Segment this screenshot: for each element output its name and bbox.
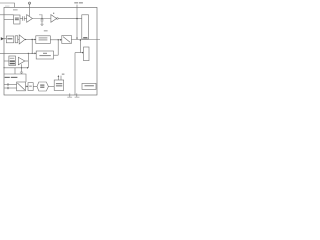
wire to amp2 (18, 38, 19, 40)
capacitor C2 plates (41, 18, 44, 20)
wire hex to B12 (48, 86, 54, 88)
junction J1 (76, 18, 77, 19)
trimmer stub (41, 14, 43, 19)
block B13 reference (82, 83, 96, 89)
block B12 (54, 80, 64, 90)
label above B6 (44, 30, 48, 31)
arrowheads (27, 38, 84, 69)
pin tick x70 (69, 93, 71, 96)
arrowhead A5 into B9 (35, 52, 37, 54)
inverter U2 (51, 15, 57, 23)
wire B9 out (54, 54, 59, 56)
arrowhead A3 up at x80.4 (80, 39, 82, 41)
wire input y53.3 (0, 52, 36, 54)
text inside hexagon (40, 85, 44, 86)
osc wire 1 (4, 84, 17, 86)
wire input y19.3 (4, 18, 14, 20)
wire cap to amp (24, 18, 27, 20)
stubs above B12 (57, 76, 59, 80)
wire W2b (50, 39, 62, 41)
arrowhead A9 into B11 (27, 86, 29, 88)
hexagon OSC (37, 82, 48, 91)
wire dac out arrow (26, 85, 28, 87)
wire y52.6 horizontal (75, 52, 83, 54)
label right of stubs (62, 74, 65, 75)
text inside B8 (10, 58, 15, 59)
osc wire 2 (4, 87, 17, 89)
text inside B13 (85, 85, 94, 86)
junction J9 (41, 18, 42, 19)
block B4 (6, 36, 14, 43)
block B7 ramp (62, 36, 72, 44)
pin label below border 2 (75, 97, 80, 98)
junction J2 (32, 39, 33, 40)
ground G2 under amp (21, 64, 23, 72)
wire pin x77 vertical (76, 5, 78, 40)
wire input y14.8 (0, 14, 14, 16)
text inside B6 (39, 37, 48, 38)
text inside B4 (7, 38, 12, 39)
wire top external (0, 3, 15, 7)
junction J8 (3, 67, 4, 68)
block B8 (9, 56, 16, 66)
wire into B8 (4, 60, 9, 62)
block B11 small (28, 83, 33, 91)
crystal bars (7, 83, 8, 89)
junction J3 (25, 39, 26, 40)
arrowhead A7 into B7 (60, 39, 62, 41)
input arrow A1 (1, 37, 4, 40)
op-amp U1 (27, 15, 33, 23)
wire y67.8 (4, 67, 28, 69)
wire amp3 riser (27, 53, 29, 68)
label top right (74, 2, 78, 3)
inverter bubble U2 (57, 18, 59, 20)
ground G2 bars (20, 71, 23, 73)
junction x58 drop (57, 40, 59, 55)
capacitor C1 plate 2 (23, 16, 25, 21)
text inside B1 (15, 18, 19, 19)
junction J6 (32, 53, 33, 54)
pin label below border 1 (67, 97, 72, 98)
label near C2 (39, 14, 42, 15)
label above block B1 (13, 9, 18, 10)
tick above U2 (53, 13, 54, 14)
wire x75 vertical (74, 53, 76, 95)
op-amp U3 (19, 35, 25, 44)
text inside B12 (56, 83, 62, 84)
converter diagonal in B10 (17, 83, 24, 90)
block B3 right mid (84, 47, 90, 61)
block B6 pwm (36, 36, 51, 44)
wire box to cap (20, 18, 23, 20)
wire y74 (4, 74, 26, 82)
block B5 narrow (15, 36, 18, 43)
text inside B9 (43, 53, 47, 54)
wire W2 output right (71, 39, 100, 41)
ground G1 (41, 23, 44, 25)
text smudges (5, 2, 94, 98)
arrowhead A2 down at x77 (76, 38, 78, 40)
arrowhead A10 on B12 stub (58, 75, 60, 77)
wire to hexagon (33, 85, 37, 87)
block B2 tall right (82, 15, 89, 39)
arrowhead A8 into B6 (34, 39, 36, 41)
wire pin to amp U1 (29, 4, 31, 16)
wire apex to riser (25, 60, 29, 62)
chip border (4, 7, 97, 95)
pin circle P1 (28, 2, 30, 4)
wire W1 (32, 18, 51, 20)
block B9 (36, 51, 53, 59)
faint label top-left (5, 6, 10, 7)
block B1 input (14, 15, 20, 24)
capacitor C1 (22, 16, 24, 21)
junction dots (3, 18, 77, 69)
junction J4 (58, 39, 59, 40)
wire W1b (58, 18, 82, 20)
wire x80.4 vertical (79, 40, 81, 53)
op-amp U4 (18, 57, 25, 65)
pin tick x77 (76, 93, 78, 96)
osc label (5, 77, 10, 78)
junction J7 (21, 67, 22, 68)
ramp diagonal in B7 (63, 37, 70, 43)
text inside B2 tall (83, 37, 87, 38)
mark inside B11 (29, 86, 32, 87)
junction x32 drop (31, 40, 33, 54)
wire W2a (25, 39, 36, 41)
arrowhead A6 on y67.8 wire (27, 67, 29, 69)
block B10 dac (17, 82, 26, 91)
wire arrow to block (4, 38, 7, 40)
link x15 (14, 68, 16, 74)
arrowhead A4 into B3 (82, 52, 84, 54)
junction J5 (28, 53, 29, 54)
